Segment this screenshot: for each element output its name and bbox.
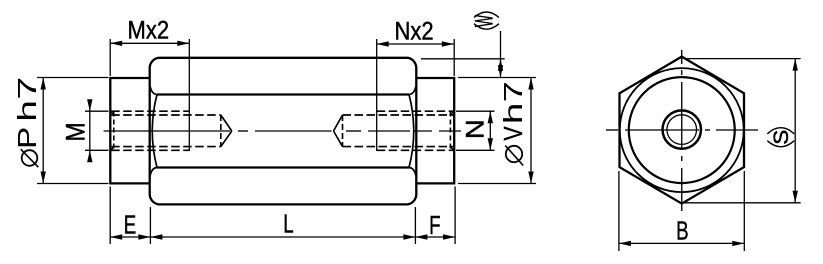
- svg-text:L: L: [283, 208, 293, 238]
- label (W): paren arcs + rotated W: [471, 12, 499, 29]
- right drill cone point (hidden): [334, 115, 343, 147]
- dimension Mx2 (left thread depth): [110, 39, 189, 151]
- end view centerline horizontal: [606, 129, 758, 131]
- dimension E: [110, 187, 150, 245]
- center hole thread major circle: [663, 110, 701, 148]
- hex chamfer arcs right end: [409, 87, 416, 176]
- right tapped hole N: hidden thread major dia: [377, 111, 454, 150]
- hex chamfer arcs left end: [150, 87, 157, 176]
- svg-text:S: S: [769, 130, 793, 145]
- left boss (pilot dia P) outline: [110, 77, 149, 185]
- dimension F: [415, 187, 455, 245]
- svg-text:B: B: [676, 215, 688, 245]
- svg-text:Mx2: Mx2: [128, 16, 170, 44]
- left drill cone point (hidden): [221, 115, 232, 147]
- label (S): paren arcs + rotated S: [767, 128, 794, 147]
- dimension Nx2 (right thread depth): [377, 39, 455, 151]
- svg-text:7: 7: [499, 81, 528, 102]
- dimension dia V h7: [458, 78, 536, 184]
- left tapped hole M: hidden thread major dia: [111, 111, 189, 150]
- right tapped hole N: hidden drill minor dia: [343, 115, 454, 147]
- left hole entry chamfer (hidden): [111, 111, 115, 150]
- dimension N (thread dia, inside arrows): [456, 111, 495, 150]
- svg-text:N: N: [460, 119, 489, 139]
- svg-text:F: F: [429, 210, 440, 240]
- svg-text:Nx2: Nx2: [394, 17, 433, 45]
- svg-text:E: E: [124, 209, 136, 239]
- left tapped hole M: hidden drill minor dia: [111, 115, 221, 147]
- dimension dia P h7: [37, 78, 109, 184]
- dimension L: [150, 207, 415, 244]
- svg-text:h: h: [13, 100, 42, 122]
- svg-text:W: W: [471, 15, 499, 27]
- svg-text:7: 7: [14, 77, 42, 100]
- chamfer cone base circle: [629, 77, 735, 183]
- label dia P h7 (rotated): diameter symbol + text: [13, 77, 42, 168]
- svg-text:V: V: [499, 126, 529, 140]
- chamfer circle tangent to flats: [620, 68, 744, 192]
- svg-text:P: P: [13, 127, 42, 149]
- right hole entry chamfer (hidden): [450, 111, 454, 150]
- center hole minor circle: [667, 115, 697, 145]
- svg-text:h: h: [499, 103, 528, 125]
- hexagon outline (end view): [620, 57, 745, 204]
- right boss (pilot dia V) outline: [416, 77, 454, 185]
- end view centerline vertical: [681, 50, 683, 211]
- svg-text:M: M: [61, 122, 91, 141]
- dimension (W) hex flat to boss: [421, 31, 505, 77]
- hex flat boundary line lower: [157, 166, 409, 168]
- dimension B (across flats): [619, 171, 744, 251]
- dimension (S) across corners: [684, 59, 801, 203]
- centerline (side view axis): [104, 130, 461, 132]
- dimension M (thread dia, outside arrows): [85, 100, 109, 162]
- hex flat boundary line upper: [157, 93, 409, 95]
- hex body outline: [150, 58, 417, 205]
- label dia V h7 (rotated): diameter symbol + text: [499, 81, 529, 165]
